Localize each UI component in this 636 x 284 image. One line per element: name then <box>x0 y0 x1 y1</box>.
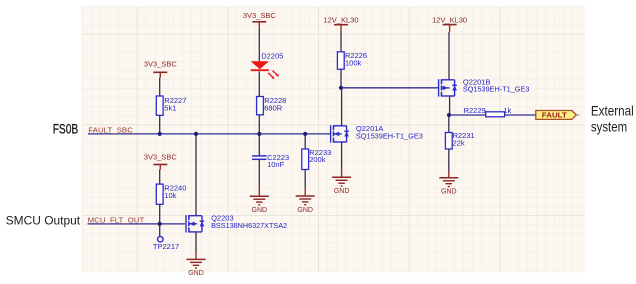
resistor R2229 horizontal <box>486 112 505 117</box>
transistor Q2203 MOSFET <box>186 215 204 232</box>
junction FAULT_SBC at R2233 <box>303 132 307 136</box>
ground GND below Q2201A source <box>332 169 351 196</box>
wire node to R2231 pin 1 <box>448 115 450 133</box>
svg-text:5k1: 5k1 <box>164 104 176 113</box>
junction FAULT_SBC at R2228/C2223 <box>257 132 261 136</box>
wire Q2201A source to GND <box>341 142 343 169</box>
svg-text:12V_KL30: 12V_KL30 <box>323 16 358 25</box>
svg-text:BSS138NH6327XTSA2: BSS138NH6327XTSA2 <box>211 221 287 230</box>
wire MCU_FLT_OUT net to TP2217 <box>159 224 161 237</box>
svg-text:100k: 100k <box>345 58 362 67</box>
wire 3V3_SBC to R2240 pin 1 <box>159 170 161 185</box>
wire 3V3_SBC to D2205 anode <box>258 28 260 62</box>
svg-text:680R: 680R <box>264 103 283 112</box>
wire FAULT_SBC net to C2223 pin 1 <box>258 134 260 156</box>
svg-text:12V_KL30: 12V_KL30 <box>432 16 467 25</box>
svg-text:10k: 10k <box>164 191 176 200</box>
resistor R2231 <box>445 133 452 150</box>
junction MCU_FLT_OUT at R2240/TP2217 <box>158 222 162 226</box>
wire R2240 pin 2 to MCU_FLT_OUT net <box>159 204 161 224</box>
diode D2205 LED <box>251 61 279 79</box>
wire 12V_KL30 to R2226 pin 1 <box>340 31 342 52</box>
wire Q2201B source node to R2229 pin 1 <box>449 114 486 116</box>
transistor Q2201B MOSFET <box>439 79 457 96</box>
svg-text:3V3_SBC: 3V3_SBC <box>144 153 178 162</box>
wire R2227 pin 2 to FAULT_SBC net <box>159 115 161 134</box>
ground GND below C2223 <box>250 187 269 215</box>
svg-text:MCU_FLT_OUT: MCU_FLT_OUT <box>88 216 145 225</box>
power port 3V3_SBC above D2205 <box>243 11 277 28</box>
wire FAULT_SBC net to R2233 pin 1 <box>304 134 306 149</box>
svg-text:3V3_SBC: 3V3_SBC <box>144 60 178 69</box>
resistor R2228 <box>257 97 264 115</box>
wire node to Q2201A drain <box>341 88 343 126</box>
resistor R2233 <box>302 149 309 170</box>
wire 3V3_SBC to R2227 pin 1 <box>159 78 161 97</box>
svg-text:1k: 1k <box>503 106 511 115</box>
wire R2229 pin 2 to FAULT flag <box>505 114 536 116</box>
wire MCU_FLT_OUT horizontal <box>88 223 186 225</box>
wire C2223 pin 2 to GND <box>258 159 260 186</box>
test point TP2217 <box>158 237 163 242</box>
svg-text:SQ1539EH-T1_GE3: SQ1539EH-T1_GE3 <box>356 132 423 141</box>
svg-text:FAULT_SBC: FAULT_SBC <box>88 126 133 135</box>
svg-text:External: External <box>591 103 634 119</box>
port FAULT flag <box>536 111 579 120</box>
power port 3V3_SBC above R2240 <box>144 153 178 170</box>
svg-text:D2205: D2205 <box>261 52 283 61</box>
svg-text:FS0B: FS0B <box>53 121 78 137</box>
junction FAULT_SBC at R2227 <box>158 132 162 136</box>
svg-text:TP2217: TP2217 <box>153 242 179 251</box>
resistor R2226 <box>337 52 344 69</box>
wire 12V_KL30 to Q2201B drain <box>448 32 450 80</box>
wire Q2203 source to GND <box>195 232 197 252</box>
svg-text:SMCU Output: SMCU Output <box>6 215 81 227</box>
wire FAULT_SBC main net horizontal <box>88 133 331 135</box>
power port 12V_KL30 above Q2201B <box>432 16 467 32</box>
svg-text:GND: GND <box>297 207 313 214</box>
svg-text:SQ1539EH-T1_GE3: SQ1539EH-T1_GE3 <box>463 85 530 94</box>
svg-text:system: system <box>591 118 627 134</box>
ground GND below R2231 <box>439 171 458 196</box>
power port 12V_KL30 above R2226 <box>323 16 358 32</box>
resistor R2227 <box>156 96 163 115</box>
wire R2226 bottom to Q2201B gate <box>341 87 439 89</box>
capacitor C2223 <box>252 156 267 159</box>
junction node R2226/Q2201A/Q2201B-gate <box>339 86 343 90</box>
wire FAULT_SBC net to Q2203 drain <box>195 134 197 216</box>
svg-text:200k: 200k <box>309 155 326 164</box>
ground GND below R2233 <box>296 188 315 213</box>
svg-text:10nF: 10nF <box>267 160 285 169</box>
ground GND below Q2203 source <box>187 252 206 278</box>
svg-text:GND: GND <box>441 189 457 196</box>
power port 3V3_SBC above R2227 <box>144 60 178 78</box>
wire R2231 pin 2 to GND <box>448 149 450 171</box>
transistor Q2201A MOSFET <box>331 125 349 142</box>
wire Q2201B source down to node <box>449 96 451 115</box>
junction FAULT_SBC at Q2203 drain branch <box>194 132 198 136</box>
svg-text:3V3_SBC: 3V3_SBC <box>243 11 277 20</box>
resistor R2240 <box>156 184 163 204</box>
svg-text:GND: GND <box>334 188 350 195</box>
svg-text:R2229: R2229 <box>464 106 486 115</box>
junction node Q2201B source/R2229/R2231 <box>447 113 451 117</box>
svg-text:GND: GND <box>252 207 268 214</box>
wire R2228 pin 2 to FAULT_SBC net <box>258 115 260 134</box>
wire D2205 cathode to R2228 pin 1 <box>258 71 260 96</box>
wire R2233 pin 2 to GND <box>304 170 306 189</box>
wire R2226 pin 2 to node <box>340 69 342 88</box>
svg-text:GND: GND <box>188 270 204 277</box>
svg-text:FAULT: FAULT <box>542 111 567 120</box>
svg-text:22k: 22k <box>453 139 465 148</box>
